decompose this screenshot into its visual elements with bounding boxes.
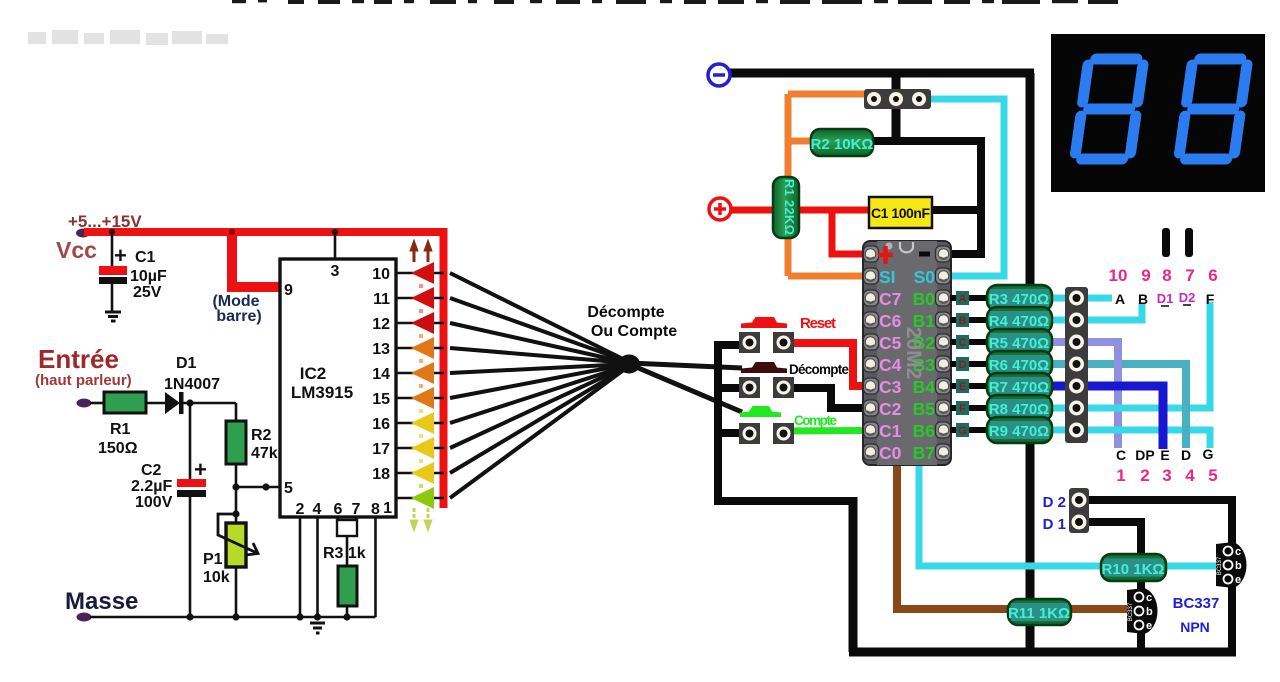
wire G cyan horizontal [1051, 427, 1214, 434]
wire C2 to ground rail [189, 497, 192, 618]
svg-text:(haut parleur): (haut parleur) [35, 372, 132, 389]
svg-text:+: + [194, 457, 207, 482]
svg-text:11: 11 [373, 291, 390, 308]
resistor R4 470 [987, 307, 1052, 333]
transistor Q1 BC337 [1127, 588, 1158, 634]
svg-text:c: c [1146, 592, 1152, 604]
svg-text:R3 1k: R3 1k [323, 545, 366, 562]
svg-text:R2 10KΩ: R2 10KΩ [811, 136, 874, 153]
node D1 junction [186, 399, 193, 406]
wires B0-B6 stubs [950, 298, 990, 430]
button Compte pads [739, 423, 760, 444]
svg-text:9: 9 [1141, 266, 1150, 285]
svg-text:4: 4 [1185, 466, 1195, 485]
Vcc connector [76, 229, 90, 238]
resistor R9 470 [987, 417, 1052, 443]
node ground P1 [232, 613, 239, 620]
chip dot [886, 243, 893, 250]
svg-text:B5: B5 [913, 399, 936, 419]
node fan [618, 355, 640, 374]
wire F cyan horizontal [1051, 405, 1214, 412]
svg-text:Entrée: Entrée [38, 344, 119, 374]
resistor R3 [338, 566, 357, 606]
svg-text:D: D [959, 359, 967, 371]
header J2 7-pad [1065, 287, 1088, 443]
svg-text:C2: C2 [879, 399, 902, 419]
svg-text:S0: S0 [914, 267, 936, 287]
LED D10 red [411, 262, 434, 284]
svg-text:14: 14 [372, 366, 390, 383]
wire right vertical to chip [952, 137, 981, 254]
minus terminal [708, 64, 730, 86]
svg-text:13: 13 [372, 341, 390, 358]
wire minus top rail [730, 69, 1034, 78]
up arrows dark red [410, 240, 432, 262]
wire E blue vertical [1159, 382, 1168, 450]
wire node to compte [629, 364, 742, 412]
wire node to decompte [629, 363, 742, 368]
svg-text:C7: C7 [879, 289, 901, 309]
svg-text:10: 10 [372, 266, 390, 283]
svg-text:100V: 100V [135, 494, 173, 511]
wire ground rail [90, 616, 376, 619]
chip minus mark [919, 252, 930, 257]
wire fan led14 [450, 364, 629, 373]
svg-text:R3 470Ω: R3 470Ω [989, 291, 1049, 308]
down arrows light green [410, 508, 432, 531]
chip plus mark [878, 246, 893, 264]
FAN-SECTION [450, 273, 742, 498]
labels segment letters top [1115, 291, 1215, 307]
ground C1 [105, 312, 121, 321]
chip 20M2 body [863, 241, 951, 465]
DISPLAY-SECTION [1051, 34, 1265, 257]
svg-text:3: 3 [1162, 466, 1171, 485]
wire orange to R2 [788, 138, 813, 145]
svg-text:R1 22KΩ: R1 22KΩ [782, 179, 797, 235]
faint ghost text top-left [28, 30, 228, 45]
wire to R2 top [235, 403, 238, 422]
svg-text:10µF: 10µF [130, 268, 167, 285]
LED D14 orange [411, 362, 434, 384]
svg-text:IC2: IC2 [300, 364, 326, 383]
svg-text:Vcc: Vcc [56, 237, 97, 263]
svg-text:D1: D1 [1157, 291, 1174, 306]
wire ground rail vertical [1026, 73, 1035, 652]
wire C0 brown down [897, 460, 1129, 609]
svg-text:C1: C1 [135, 249, 156, 266]
svg-text:D: D [1181, 447, 1191, 463]
svg-text:2: 2 [296, 501, 305, 518]
wire R2 right link [871, 137, 981, 145]
svg-text:barre): barre) [216, 308, 261, 325]
svg-text:17: 17 [372, 441, 390, 458]
svg-text:E: E [959, 381, 966, 393]
LEFT-SECTION [28, 0, 1118, 633]
resistor R8 470 [987, 395, 1052, 421]
svg-text:G: G [958, 425, 967, 437]
wire C1 bottom lead [111, 284, 114, 311]
svg-text:5: 5 [1208, 466, 1217, 485]
svg-text:R1: R1 [110, 421, 131, 438]
op-amp IC2 LM3915 body [280, 259, 396, 517]
svg-text:BC337: BC337 [1217, 556, 1223, 575]
svg-text:C1 100nF: C1 100nF [871, 205, 930, 221]
transistor Q2 BC337 [1216, 542, 1247, 588]
svg-text:2: 2 [1140, 466, 1149, 485]
node ground R3 [343, 613, 350, 620]
svg-text:R4 470Ω: R4 470Ω [989, 313, 1049, 330]
wire fan led10 [450, 273, 629, 362]
capacitor C1 100nF [869, 197, 932, 228]
svg-text:e: e [1235, 574, 1241, 586]
resistor R1 22K vertical [773, 177, 799, 238]
wire entree to R1 [90, 402, 106, 405]
wire D1 to R2 [183, 402, 236, 405]
svg-text:NPN: NPN [1180, 619, 1210, 635]
potentiometer P1 wiper [218, 514, 257, 553]
svg-text:12: 12 [372, 316, 390, 333]
resistor R2 10K [811, 129, 873, 156]
svg-text:Reset: Reset [800, 315, 836, 332]
svg-text:b: b [1146, 606, 1153, 618]
svg-text:C5: C5 [879, 333, 902, 353]
LED gap dashes [419, 284, 423, 488]
digit 1 [1075, 59, 1144, 159]
Entree connector [77, 399, 92, 408]
labels display pins bottom [1116, 466, 1217, 485]
wire Vcc red rail [84, 228, 447, 236]
wire C1 right [930, 206, 981, 214]
diode D1 [165, 392, 180, 414]
svg-text:BC337: BC337 [1128, 602, 1134, 621]
node P1 wiper top [232, 510, 239, 517]
wire R3 to ground [346, 606, 349, 617]
node ground pin2 [296, 613, 303, 620]
svg-text:b: b [1235, 560, 1242, 572]
svg-text:25V: 25V [133, 284, 162, 301]
wire orange vertical [785, 94, 792, 276]
wire pin 2 down [299, 517, 302, 617]
chip pin bumps right [936, 246, 951, 460]
svg-text:C: C [959, 337, 967, 349]
svg-text:10: 10 [1109, 266, 1128, 285]
wire D2 to right vertical [1079, 500, 1232, 652]
LED D1g green [411, 487, 434, 509]
wire orange to header [788, 91, 866, 98]
wire to pin 5 [236, 486, 281, 489]
labels segment letters bottom [1116, 446, 1214, 463]
svg-text:8: 8 [371, 501, 380, 518]
svg-text:C: C [1116, 447, 1126, 463]
LED D13 orange [411, 337, 434, 359]
svg-text:c: c [1235, 546, 1241, 558]
svg-text:LM3915: LM3915 [291, 383, 353, 402]
wire F cyan vertical [1207, 302, 1214, 412]
svg-text:R8 470Ω: R8 470Ω [989, 401, 1049, 418]
svg-text:7: 7 [352, 501, 361, 518]
wire fan led16 [450, 365, 629, 423]
resistor R2 [226, 421, 246, 464]
wire reset to C3 [783, 343, 864, 386]
labels display pins top [1109, 266, 1218, 285]
svg-text:1: 1 [1116, 466, 1125, 485]
wire fan led1 [450, 366, 629, 498]
svg-text:G: G [1203, 446, 1214, 462]
svg-text:C2: C2 [141, 462, 162, 479]
svg-text:C0: C0 [879, 443, 902, 463]
LED D18 yellow [411, 462, 434, 484]
wire compte to C1 [783, 427, 864, 435]
button Decompte cap [741, 362, 787, 373]
resistor R6 470 [987, 351, 1052, 377]
svg-text:D 1: D 1 [1043, 516, 1066, 533]
wire cyan S0 net [931, 99, 1004, 276]
plus terminal [709, 198, 731, 220]
svg-text:BC337: BC337 [1173, 595, 1220, 612]
node pin5 wire [262, 483, 269, 490]
svg-text:C6: C6 [879, 311, 902, 331]
wire fan led15 [450, 364, 629, 398]
button Compte cap [740, 406, 781, 417]
display pin bars [1162, 228, 1170, 257]
chip pin bumps left [864, 246, 879, 460]
svg-text:A: A [1115, 291, 1125, 307]
resistor R1 [104, 392, 146, 413]
svg-text:D1: D1 [176, 355, 197, 372]
wire fan led18 [450, 366, 629, 473]
wire B cyan [1051, 303, 1142, 320]
resistor R11 1K [1008, 599, 1071, 625]
svg-text:C4: C4 [879, 355, 902, 375]
wire fan led17 [450, 365, 629, 448]
chip left pin labels [879, 267, 902, 463]
svg-text:B: B [959, 315, 967, 327]
RIGHT-SECTION [708, 64, 1247, 652]
wire fan led11 [450, 298, 629, 362]
svg-text:2.2µF: 2.2µF [131, 478, 172, 495]
capacitor C1 [99, 266, 127, 275]
wire R1 to D1 [146, 402, 166, 405]
svg-text:1N4007: 1N4007 [164, 376, 220, 393]
button Decompte pads [739, 377, 760, 398]
wires LED stubs [396, 273, 444, 498]
digit 2 [1179, 59, 1248, 159]
wire E blue horizontal [1051, 382, 1163, 391]
wire red to chip plus pin [832, 210, 864, 254]
svg-text:A: A [959, 293, 967, 305]
wire pin 3 top [334, 232, 337, 260]
svg-text:B7: B7 [913, 443, 935, 463]
wire C1 top lead [111, 232, 114, 267]
svg-text:15: 15 [372, 391, 390, 408]
svg-text:R5 470Ω: R5 470Ω [989, 335, 1049, 352]
wire pins 6-7 bridge [338, 517, 356, 522]
wire junction to C2 [189, 403, 192, 480]
svg-text:C1: C1 [879, 421, 902, 441]
svg-text:150Ω: 150Ω [98, 440, 138, 457]
cropped text remnants top edge [232, 0, 1118, 4]
svg-text:Décompte: Décompte [587, 304, 664, 321]
svg-text:D 2: D 2 [1043, 494, 1066, 511]
svg-text:e: e [1146, 620, 1152, 632]
header J3 D1 D2 [1069, 488, 1089, 533]
button Reset cap [741, 317, 787, 328]
svg-text:P1: P1 [203, 551, 223, 568]
LED D11 red [411, 287, 434, 309]
node ground C2 [186, 613, 193, 620]
wire B7 cyan down [919, 460, 1218, 566]
wire bracket buttons [714, 345, 853, 501]
wire orange to chip SI [788, 273, 864, 280]
svg-text:B6: B6 [913, 421, 936, 441]
svg-text:Décompte: Décompte [789, 362, 849, 377]
wire D teal horizontal [1051, 360, 1186, 368]
svg-text:Masse: Masse [65, 588, 138, 615]
svg-text:4: 4 [313, 501, 322, 518]
wire pin 4 down [316, 517, 319, 617]
svg-text:+: + [114, 243, 127, 268]
ground symbol pin4 [310, 623, 325, 633]
svg-text:R6 470Ω: R6 470Ω [989, 357, 1049, 374]
svg-text:6: 6 [334, 501, 343, 518]
wire G cyan vertical [1207, 427, 1214, 449]
wire red plus rail [730, 207, 872, 214]
svg-text:E: E [1160, 447, 1169, 463]
wire bottom rail [849, 648, 1236, 657]
svg-text:R11 1KΩ: R11 1KΩ [1008, 605, 1070, 622]
wire R2 bottom to P1 [235, 463, 238, 524]
svg-text:9: 9 [284, 282, 293, 299]
wire C lavender [1051, 342, 1118, 448]
junction dots on red rail [229, 229, 235, 235]
LED D17 yellow [411, 437, 434, 459]
svg-text:R9 470Ω: R9 470Ω [989, 423, 1049, 440]
svg-text:16: 16 [372, 416, 390, 433]
svg-text:B4: B4 [913, 377, 936, 397]
svg-text:DP: DP [1135, 447, 1154, 463]
wire pin 8 down [374, 517, 377, 617]
Masse connector [77, 613, 92, 622]
resistor R10 1K [1101, 554, 1166, 581]
svg-text:SI: SI [879, 267, 896, 287]
wire D teal vertical [1182, 360, 1190, 448]
wire red drop to pin 9 [232, 232, 281, 287]
svg-text:18: 18 [372, 466, 390, 483]
svg-text:3: 3 [331, 263, 340, 280]
tags A-G [956, 291, 969, 437]
chip notch [900, 242, 913, 252]
node ground pin4 [314, 613, 321, 620]
svg-text:20M2: 20M2 [902, 327, 925, 380]
svg-text:B0: B0 [913, 289, 936, 309]
wire header mid drop [892, 73, 901, 141]
wire A cyan [1051, 295, 1112, 302]
svg-text:7: 7 [1185, 266, 1194, 285]
LED D12 red [411, 312, 434, 334]
svg-text:D2: D2 [1179, 290, 1196, 305]
svg-text:F: F [959, 403, 966, 415]
svg-text:47k: 47k [251, 445, 278, 462]
wire decompte to C2 [783, 388, 864, 408]
LED D16 yellow [411, 412, 434, 434]
LED D15 orange [411, 387, 434, 409]
potentiometer P1 [226, 523, 246, 567]
svg-text:5: 5 [284, 480, 293, 497]
capacitor C2 [177, 479, 206, 487]
wire fan led12 [450, 323, 629, 363]
svg-text:10k: 10k [203, 569, 230, 586]
header J1 3-pad [864, 89, 931, 109]
svg-text:C3: C3 [879, 377, 902, 397]
wire D1 drop [1079, 522, 1141, 652]
svg-text:Ou Compte: Ou Compte [591, 323, 677, 340]
svg-text:8: 8 [1162, 266, 1171, 285]
wire P1 to ground rail [235, 567, 238, 618]
wire fan led13 [450, 348, 629, 363]
wire red LED rail [440, 228, 448, 508]
node R2-P1 [232, 483, 239, 490]
svg-text:F: F [1206, 291, 1215, 307]
svg-text:1: 1 [383, 500, 392, 517]
resistor R3 470 [987, 285, 1052, 311]
svg-text:Compte: Compte [794, 413, 837, 428]
svg-text:R10 1KΩ: R10 1KΩ [1102, 561, 1165, 578]
button Reset pads [739, 332, 760, 353]
svg-text:6: 6 [1208, 266, 1217, 285]
labels right pins 10-18,1 [372, 266, 392, 517]
wire left vertical to bottom rail [849, 497, 858, 652]
svg-text:R7 470Ω: R7 470Ω [989, 379, 1049, 396]
svg-text:B: B [1138, 291, 1148, 307]
7-segment display module [1051, 34, 1265, 192]
resistor R7 470 [987, 373, 1052, 399]
resistor R5 470 [987, 329, 1052, 355]
wire bridge to R3 [346, 536, 349, 567]
svg-text:R2: R2 [251, 427, 272, 444]
chip right pin labels [913, 267, 936, 463]
